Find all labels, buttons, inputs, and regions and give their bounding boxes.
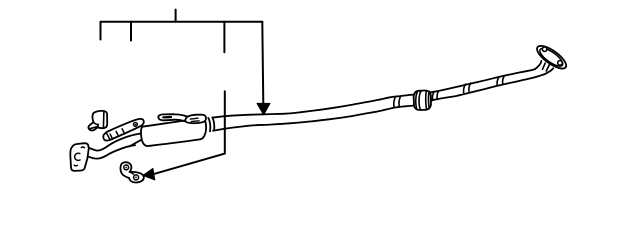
part 1 left flap <box>88 113 98 130</box>
front pipe bottom edge <box>88 145 135 158</box>
long pipe bottom edge (joint to elbow) <box>429 68 553 100</box>
main pipe top edge (muffler to flex joint) <box>213 95 414 118</box>
seam after joint <box>432 91 438 101</box>
left flange plate <box>70 143 89 171</box>
flange bore arc <box>75 153 80 160</box>
flex joint right rim lines <box>426 91 430 110</box>
part 2 inner edge <box>109 127 139 140</box>
hanger rod loop on muffler <box>158 114 174 120</box>
front pipe top edge <box>89 134 140 151</box>
upper strap bracket (part 2) outline <box>103 119 144 141</box>
lower hanger bracket outline <box>120 162 143 182</box>
part 2 hole ring <box>134 123 138 127</box>
leader arrowhead <box>143 168 155 180</box>
callout tick 3 <box>223 22 225 53</box>
callout arrowhead <box>257 103 270 114</box>
hanger plate on muffler <box>185 115 206 124</box>
part 2 hole dot <box>135 124 137 126</box>
weld seam before joint <box>394 96 401 107</box>
flange bolt mark bottom <box>74 164 77 167</box>
callout tick 2 <box>130 22 132 41</box>
leader line to lower bracket <box>155 91 225 174</box>
lower bracket lower hole <box>134 175 139 180</box>
weld seam B <box>497 76 504 85</box>
muffler outlet band <box>208 117 214 131</box>
flex joint left rim arcs <box>416 91 421 110</box>
tip flange outer ellipse <box>534 42 570 73</box>
upper small bracket (part 1) top face <box>93 111 107 128</box>
long pipe top edge (joint to elbow) <box>429 61 541 93</box>
flange bolt mark top <box>81 146 84 149</box>
hanger plate slots <box>190 118 199 121</box>
lower bracket fold line <box>130 172 134 174</box>
callout tick up <box>175 10 177 22</box>
main pipe bottom edge (muffler to flex joint) <box>213 106 414 131</box>
part 2 cross lines <box>106 129 124 139</box>
hanger rod <box>174 114 188 121</box>
callout arrow down line <box>262 22 263 105</box>
tip flange inner ellipse <box>537 45 565 69</box>
tip flange hole upper <box>542 47 546 51</box>
part 1 fold lines <box>90 111 104 129</box>
tip flange hole lower <box>558 61 563 66</box>
weld seam A <box>464 83 471 93</box>
hanger loop inner slot <box>163 116 172 118</box>
muffler inlet cone lower line <box>130 140 141 146</box>
neck seams below tip flange <box>543 63 550 71</box>
lower bracket upper hole <box>124 165 129 170</box>
callout bracket horizontal line with left drop <box>101 22 263 40</box>
muffler body <box>141 118 206 146</box>
flex ball joint collar <box>414 90 431 110</box>
